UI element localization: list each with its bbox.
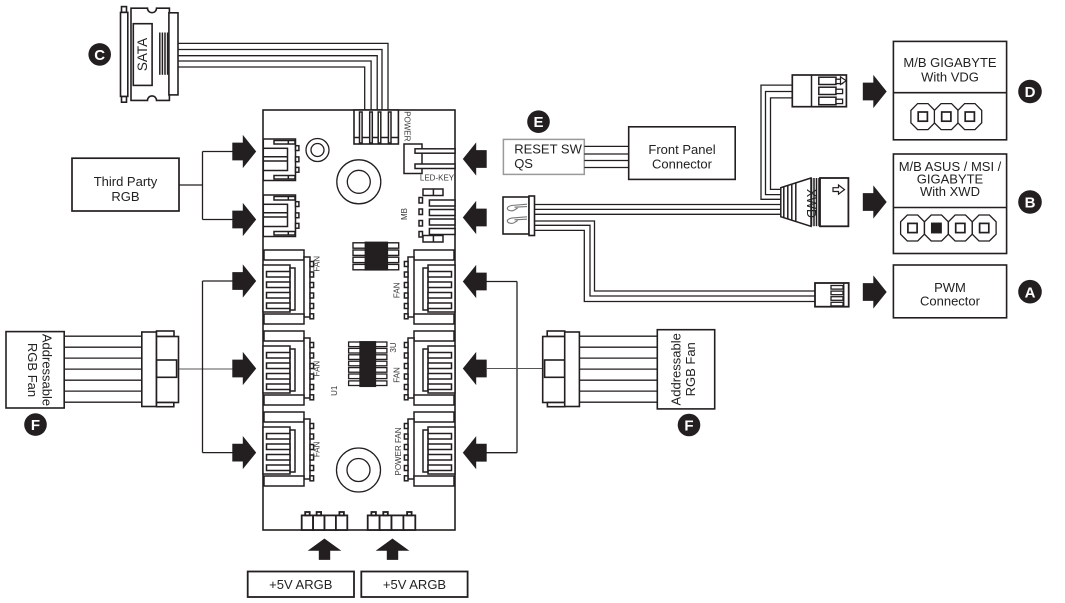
svg-text:AddressableRGB Fan: AddressableRGB Fan [669, 333, 699, 405]
svg-text:AddressableRGB Fan: AddressableRGB Fan [25, 334, 55, 406]
svg-text:Connector: Connector [652, 157, 713, 172]
svg-text:SATA: SATA [135, 38, 150, 71]
svg-text:B: B [1025, 195, 1036, 212]
svg-text:+5V ARGB: +5V ARGB [383, 577, 446, 592]
svg-text:FAN: FAN [393, 367, 402, 383]
svg-text:U1: U1 [330, 385, 339, 396]
svg-text:With XWD: With XWD [920, 184, 980, 199]
svg-text:FAN: FAN [313, 256, 322, 272]
svg-text:QS: QS [514, 156, 533, 171]
svg-text:Front Panel: Front Panel [648, 142, 715, 157]
svg-text:E: E [533, 114, 543, 131]
svg-text:LED-KEY: LED-KEY [420, 174, 455, 183]
svg-text:RGB: RGB [111, 189, 139, 204]
svg-text:Third Party: Third Party [94, 174, 158, 189]
svg-text:XWD: XWD [804, 189, 818, 218]
svg-text:With VDG: With VDG [921, 70, 979, 85]
svg-text:POWER FAN: POWER FAN [394, 427, 403, 475]
svg-text:C: C [94, 47, 105, 64]
svg-text:MB: MB [400, 208, 409, 220]
svg-text:RESET SW: RESET SW [514, 142, 582, 157]
svg-text:D: D [1025, 84, 1036, 101]
svg-text:F: F [684, 418, 693, 435]
svg-text:FAN: FAN [393, 282, 402, 298]
svg-text:+5V ARGB: +5V ARGB [269, 577, 332, 592]
svg-text:Connector: Connector [920, 294, 981, 309]
svg-text:F: F [31, 417, 40, 434]
svg-text:A: A [1025, 284, 1036, 301]
svg-text:M/B GIGABYTE: M/B GIGABYTE [903, 55, 997, 70]
svg-text:POWER: POWER [403, 111, 412, 141]
svg-text:FAN: FAN [313, 361, 322, 377]
svg-text:3U: 3U [389, 342, 398, 352]
svg-text:FAN: FAN [313, 441, 322, 457]
